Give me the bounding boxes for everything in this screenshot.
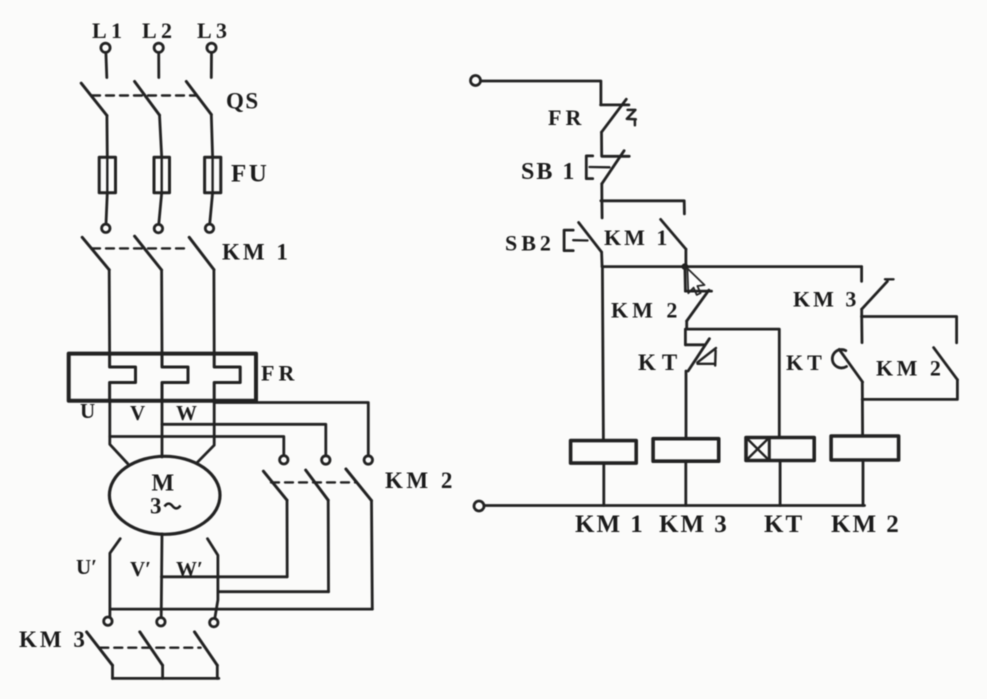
- svg-text:FU: FU: [231, 161, 269, 188]
- wire KM1 coil to rail: [602, 463, 605, 505]
- fuse FU pole3: [205, 157, 221, 193]
- wire motor W' out: [208, 539, 218, 619]
- wire FU to KM1 pole3: [210, 193, 213, 224]
- thermal relay FR heater box: [69, 354, 256, 401]
- svg-text:L 1: L 1: [92, 18, 122, 43]
- wire bottom rail: [484, 504, 864, 507]
- coil KM2: [831, 436, 899, 460]
- contactor KM2 main contacts: [263, 456, 372, 501]
- wire KM1 to FR pole1: [108, 270, 111, 354]
- svg-text:KM 2: KM 2: [611, 298, 681, 323]
- svg-text:U: U: [80, 399, 95, 423]
- wire KM3 pole3 down: [216, 665, 219, 678]
- svg-text:L 2: L 2: [142, 18, 172, 43]
- wire W' branch to KM2 pole2: [218, 590, 329, 593]
- wire U branch to KM2 pole1: [110, 437, 284, 456]
- wire KM2 aux branch top: [862, 317, 957, 343]
- wire KM3 pole2 down: [161, 665, 164, 678]
- wire KM2 pole2 down: [327, 500, 330, 592]
- contact KM2 normally-closed: [685, 267, 712, 321]
- motor M: [109, 456, 220, 534]
- wire self-hold branch top: [601, 201, 685, 214]
- wire KM1 to FR pole2: [160, 270, 163, 354]
- contact FR normally-closed: [601, 99, 636, 132]
- svg-text:V′: V′: [130, 557, 151, 581]
- contactor KM3 contacts: [87, 632, 218, 665]
- contact KM3 auxiliary normally-open: [862, 279, 894, 309]
- FR heater element phase W: [214, 354, 240, 401]
- wire KM2 pole1 down: [286, 500, 289, 577]
- switch QS: [81, 82, 211, 116]
- wire W to motor: [197, 401, 214, 463]
- svg-text:KM 1: KM 1: [575, 511, 645, 538]
- wire KM3 aux down: [860, 309, 863, 316]
- wire QS to FU pole3: [211, 115, 212, 158]
- contact KM2 auxiliary normally-open: [934, 348, 958, 380]
- wire FR to SB1: [600, 132, 603, 156]
- wire V branch to KM2 pole2: [162, 424, 326, 455]
- terminal L1: [101, 43, 110, 77]
- wire KT no to KM2 coil: [861, 382, 864, 436]
- coil KM1: [571, 441, 637, 464]
- svg-text:U′: U′: [76, 555, 97, 579]
- svg-text:KM 3: KM 3: [793, 286, 859, 311]
- wire W branch to KM2 pole3: [214, 403, 368, 456]
- wire V to motor: [161, 401, 164, 457]
- wire KM2 coil to rail: [862, 460, 865, 506]
- wire KM3 coil to rail: [684, 461, 687, 505]
- svg-text:SB 1: SB 1: [521, 159, 576, 185]
- wire branch1 down to KM1 coil: [602, 267, 603, 441]
- contact KT normally-closed delayed: [685, 329, 716, 371]
- svg-text:KM 3: KM 3: [659, 511, 729, 538]
- mouse cursor artifact: [687, 268, 704, 295]
- wire U to motor: [110, 401, 128, 464]
- svg-text:3: 3: [150, 494, 162, 519]
- wire motor U' out: [110, 539, 120, 617]
- control supply terminal bottom: [474, 501, 484, 511]
- wire branch to KT coil: [686, 329, 780, 437]
- wire QS to FU pole1: [106, 116, 109, 158]
- pushbutton SB1 normally-closed: [586, 151, 629, 184]
- terminal U': [104, 617, 112, 625]
- coil KT time relay: [746, 438, 814, 461]
- wire KM3 pole1 down: [111, 665, 114, 678]
- label tilde of 3~: [165, 504, 181, 509]
- svg-text:KM 1: KM 1: [222, 239, 291, 264]
- svg-text:KT: KT: [786, 350, 826, 375]
- svg-text:KT: KT: [638, 350, 683, 375]
- contact KT delayed normally-open: [832, 317, 862, 383]
- wire KT coil to rail: [779, 461, 782, 506]
- fuse FU pole1: [99, 157, 115, 193]
- svg-text:L 3: L 3: [197, 18, 227, 43]
- svg-text:V: V: [130, 401, 145, 425]
- wire KM2nc to KT nc: [685, 321, 688, 329]
- wire top rail: [481, 81, 601, 105]
- terminal V': [157, 618, 165, 626]
- contact KM1 auxiliary normally-open: [661, 219, 686, 249]
- wire KTnc to KM3 coil: [685, 371, 688, 439]
- wire FU to KM1 pole1: [106, 193, 107, 224]
- fuse FU pole2: [154, 157, 170, 193]
- FR heater element phase U: [110, 354, 136, 401]
- coil KM3: [653, 439, 719, 462]
- svg-text:KM 3: KM 3: [19, 627, 88, 652]
- svg-text:FR: FR: [261, 361, 298, 386]
- wire SB1 to node A: [600, 184, 603, 201]
- svg-text:SB2: SB2: [505, 231, 555, 256]
- wire U' branch to KM2 pole3: [110, 608, 372, 611]
- terminal L3: [207, 43, 216, 77]
- FR heater element phase V: [162, 354, 188, 401]
- svg-text:FR: FR: [548, 105, 585, 130]
- wire KM2 aux return: [862, 380, 957, 400]
- wire motor V' out: [160, 534, 164, 618]
- pushbutton SB2 normally-open: [564, 201, 602, 252]
- wire KM3 star point: [113, 677, 219, 680]
- terminal W': [210, 618, 218, 626]
- svg-text:W′: W′: [176, 557, 203, 581]
- node B junction dot: [682, 263, 689, 270]
- svg-text:KM 2: KM 2: [385, 468, 456, 493]
- svg-text:KM 2: KM 2: [831, 511, 901, 538]
- wire KM1 to FR pole3: [212, 270, 215, 354]
- wire FU to KM1 pole2: [159, 193, 162, 224]
- wire KM1 aux to node B: [685, 249, 688, 267]
- wire SB2 to row: [600, 252, 603, 267]
- wire main row: [602, 265, 862, 268]
- svg-text:KM 2: KM 2: [876, 355, 944, 380]
- svg-text:QS: QS: [226, 89, 260, 114]
- svg-text:W: W: [176, 401, 197, 425]
- wire KM2 pole3 down: [370, 501, 374, 609]
- contactor KM1 main contacts: [82, 224, 214, 270]
- wire V' branch to KM2 pole1: [162, 575, 288, 578]
- svg-text:KT: KT: [764, 511, 804, 538]
- control supply terminal top: [471, 76, 481, 86]
- wire QS to FU pole2: [160, 115, 162, 157]
- wire branch3 corner: [860, 267, 863, 282]
- terminal L2: [154, 43, 163, 77]
- svg-text:KM 1: KM 1: [604, 225, 670, 250]
